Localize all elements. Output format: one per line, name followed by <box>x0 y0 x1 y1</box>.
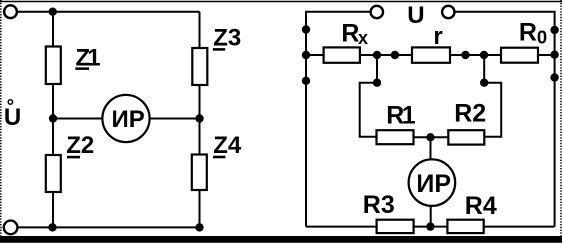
svg-text:x: x <box>358 28 368 48</box>
node right b <box>550 51 558 59</box>
node after Rx <box>373 51 381 59</box>
node right c <box>550 73 558 81</box>
wire top (left circuit) <box>17 11 200 13</box>
svg-text:Z3: Z3 <box>213 24 241 51</box>
meter IR (left) <box>102 95 149 142</box>
node drop left <box>373 79 381 87</box>
wire L from R2 <box>484 83 501 137</box>
resistor R2 <box>448 130 484 144</box>
resistor R1 <box>377 130 414 144</box>
wire Rx to r <box>360 54 412 56</box>
svg-text:ИР: ИР <box>112 106 145 133</box>
resistor R0 <box>501 48 538 63</box>
svg-text:U: U <box>4 104 21 131</box>
node bottom-right (left circuit) <box>195 223 203 231</box>
meter IR (right) <box>409 159 456 206</box>
resistor Z1 <box>46 47 61 85</box>
wire R0 to right line <box>538 54 555 56</box>
svg-text:R2: R2 <box>454 100 486 128</box>
svg-text:r: r <box>433 23 442 50</box>
svg-text:Z4: Z4 <box>213 132 242 159</box>
resistor Z2 <box>46 155 61 192</box>
resistor r <box>412 47 450 62</box>
wire mid node to Z4 <box>199 119 201 155</box>
wire left line to Rx <box>306 54 324 56</box>
wire node to R2 <box>431 136 449 138</box>
wire R3 to node <box>414 226 448 228</box>
wire R1 to node <box>414 136 431 138</box>
svg-text:0: 0 <box>537 27 547 48</box>
svg-text:R: R <box>519 18 537 46</box>
wire Z4 to bottom <box>199 190 201 227</box>
terminal top-left <box>4 5 17 18</box>
wire L to R1 <box>360 83 377 137</box>
node mid-left <box>49 114 57 122</box>
wire bottom left segment <box>306 226 377 228</box>
wire node to meter <box>430 137 432 159</box>
node before R0 <box>480 51 488 59</box>
wire left side (right circuit) <box>305 12 307 227</box>
svg-text:Z2: Z2 <box>66 132 94 159</box>
resistor Z4 <box>192 155 207 191</box>
wire Z2 to bottom <box>52 192 54 227</box>
resistor R3 <box>377 220 414 233</box>
terminal U right <box>442 6 454 18</box>
node mid-right <box>195 114 203 122</box>
svg-text:R3: R3 <box>363 191 395 219</box>
wire meter to bottom <box>430 206 432 227</box>
wire top left segment <box>305 11 371 13</box>
resistor Z3 <box>192 48 207 85</box>
wire bottom (left circuit) <box>17 226 199 228</box>
wire top right segment <box>455 11 556 13</box>
svg-text:ИР: ИР <box>416 170 451 198</box>
node plug 2 <box>461 51 469 59</box>
resistor Rx <box>324 47 360 62</box>
node bottom center <box>426 222 434 230</box>
node right a <box>550 26 558 34</box>
node bottom-left junction <box>48 223 56 231</box>
node top-left junction <box>49 8 57 16</box>
node plug 1 <box>391 51 399 59</box>
svg-text:1: 1 <box>402 101 416 129</box>
wire Z1 to mid node <box>52 84 54 155</box>
node left b <box>302 51 310 59</box>
svg-text:R: R <box>341 20 359 48</box>
wire mid-left node to meter <box>53 118 103 120</box>
terminal U left <box>371 6 383 18</box>
wire drop before R0 <box>483 55 485 83</box>
wire bottom right segment <box>484 226 555 228</box>
svg-text:U: U <box>407 2 424 29</box>
wire Z3 to mid node <box>199 85 201 119</box>
wire node to Z1 <box>52 12 54 47</box>
wire right branch top <box>199 12 201 48</box>
resistor R4 <box>447 220 483 233</box>
wire drop after Rx <box>376 55 378 83</box>
node R1-R2 <box>426 133 434 141</box>
node drop right <box>480 79 488 87</box>
svg-text:1: 1 <box>87 44 100 71</box>
wire meter to right branch <box>150 118 200 120</box>
wire r to R0 <box>450 54 501 56</box>
node left c <box>302 77 310 85</box>
node left a <box>302 25 310 33</box>
wire right side (right circuit) <box>554 12 556 227</box>
svg-text:R4: R4 <box>465 192 497 220</box>
terminal bottom-left <box>4 221 18 235</box>
